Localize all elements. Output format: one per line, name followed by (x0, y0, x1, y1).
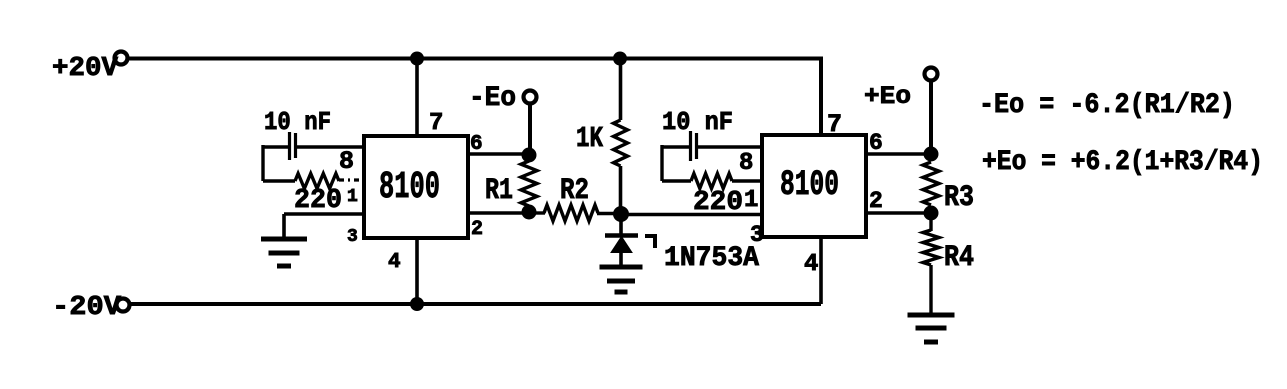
resistor R4 (923, 230, 939, 265)
svg-text:8: 8 (339, 147, 354, 176)
svg-text:8: 8 (739, 150, 753, 177)
op-amp U1 8100 (364, 136, 468, 238)
svg-text:-Eo: -Eo (469, 83, 516, 114)
svg-text:4: 4 (804, 251, 818, 278)
ground GND2 (600, 265, 643, 270)
wire R4 bottom lead (929, 265, 932, 315)
svg-text:10 nF: 10 nF (264, 107, 331, 137)
ground GND3 (908, 313, 955, 318)
wire U1 pin3 down (282, 214, 286, 239)
zener D1 triangle (611, 237, 632, 253)
svg-text:6: 6 (869, 130, 883, 156)
wire R2 lead left (535, 211, 545, 214)
node R3 bottom (924, 206, 939, 221)
svg-text:3: 3 (347, 227, 358, 247)
resistor R6 1K (614, 120, 628, 166)
wire R4 top lead (929, 213, 932, 231)
wire 1K bottom lead (619, 166, 623, 214)
svg-text:10 nF: 10 nF (662, 107, 733, 137)
wire top rail (128, 57, 821, 61)
node R1 top (522, 148, 537, 163)
wire dash-dot to U1 pin1 (339, 178, 364, 181)
node rail to U1 pin4 (410, 297, 424, 311)
wire U2 pin8 (698, 145, 762, 148)
node R1 bottom (522, 205, 537, 220)
svg-text:7: 7 (429, 110, 443, 137)
wire rail down to U2 pin7 (819, 57, 823, 137)
resistor R1 (521, 161, 537, 206)
svg-text:+Eo: +Eo (864, 82, 911, 111)
wire -Eo down (528, 104, 532, 152)
svg-text:-Eo = -6.2(R1/R2): -Eo = -6.2(R1/R2) (979, 90, 1235, 121)
wire node to U2 pin3 (621, 213, 762, 217)
ground GND1 (261, 237, 307, 242)
wire R2 lead right (597, 212, 614, 216)
wire corner2 down (660, 145, 663, 181)
svg-text:8100: 8100 (780, 165, 839, 205)
wire U2 pin6 (866, 152, 931, 156)
wire R7 to U2 pin1 (732, 179, 762, 182)
resistor R7 220 (691, 174, 732, 189)
wire corner to R5 (263, 179, 295, 182)
svg-text:220: 220 (294, 186, 342, 216)
svg-text:3: 3 (750, 222, 764, 248)
svg-text:7: 7 (827, 110, 842, 139)
svg-text:1N753A: 1N753A (664, 243, 759, 274)
svg-text:2: 2 (471, 218, 483, 241)
wire C1 to corner (263, 145, 288, 148)
wire U1 pin2 (468, 211, 529, 215)
wire U1 pin3 (284, 212, 364, 216)
svg-text:R2: R2 (560, 174, 589, 208)
terminal -20V (117, 299, 130, 312)
svg-text:+Eo = +6.2(1+R3/R4): +Eo = +6.2(1+R3/R4) (982, 147, 1263, 178)
wire U1 pin6 (468, 152, 529, 156)
node zener junction (613, 206, 629, 222)
op-amp U2 8100 (762, 135, 866, 237)
svg-text:2: 2 (869, 188, 883, 214)
wire U2 pin2 (866, 211, 931, 215)
wire U1 pin4 (415, 238, 419, 304)
svg-text:1K: 1K (576, 122, 603, 155)
wire zener to gnd (619, 252, 623, 267)
wire C2 to corner (662, 145, 689, 148)
node rail to 1K (613, 52, 627, 66)
terminal +20V (115, 52, 128, 65)
zener D1 cathode bar (605, 233, 638, 238)
svg-text:8100: 8100 (379, 166, 440, 209)
wire corner down (261, 145, 264, 181)
terminal +Eo (925, 68, 938, 81)
wire U2 pin4 (819, 237, 823, 304)
svg-text:-20V: -20V (52, 293, 122, 323)
svg-text:R3: R3 (944, 181, 974, 215)
wire U1 pin8 (297, 145, 364, 148)
svg-text:R1: R1 (485, 174, 513, 208)
wire U1 pin7 (415, 58, 419, 136)
resistor R5 220 (295, 174, 339, 189)
terminal -Eo (524, 91, 537, 104)
svg-text:R4: R4 (944, 241, 974, 275)
zener D1 wing (645, 236, 655, 248)
svg-text:4: 4 (388, 251, 401, 274)
capacitor C1 10nF (288, 132, 291, 160)
node R3 top (924, 147, 939, 162)
svg-text:+20V: +20V (52, 54, 119, 84)
wire zener lead (619, 214, 623, 236)
resistor R2 (544, 205, 598, 221)
wire bottom rail (130, 302, 821, 306)
wire corner2 to R7 (662, 179, 691, 182)
node rail to U1 pin7 (410, 52, 424, 66)
svg-text:1: 1 (347, 187, 358, 207)
wire 1K top lead (619, 58, 623, 120)
capacitor C2 10nF (689, 131, 692, 161)
svg-text:1: 1 (744, 187, 758, 214)
resistor R3 (923, 162, 939, 205)
svg-text:220: 220 (693, 188, 743, 218)
wire +Eo down (929, 81, 933, 152)
